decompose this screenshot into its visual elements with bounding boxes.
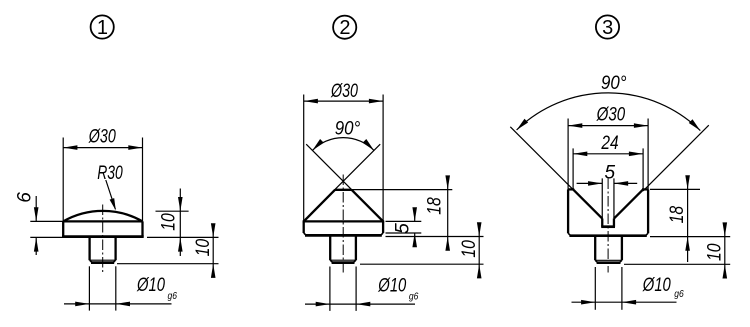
svg-text:10: 10 — [459, 240, 480, 258]
extension line right of Ø10 dim (fig2) — [355, 267, 357, 311]
dome arc R30 (fig1) — [63, 211, 142, 222]
centerline (fig1) — [102, 205, 104, 273]
shank bottom extension line right (fig1) — [117, 263, 219, 265]
dim 18 arrow up (fig3) — [685, 237, 690, 251]
slot bottom (fig3) — [601, 225, 615, 228]
dim 10 shank arrow down (fig1) — [211, 223, 216, 237]
arrow left Ø30 (fig2) — [304, 99, 318, 104]
head bottom extension line right (fig3) — [650, 236, 730, 238]
dim 18 arrow down (fig2) — [445, 175, 450, 189]
dim 5 arrow up (fig2) — [412, 233, 417, 247]
angle arc arrow left (fig2) — [312, 139, 323, 150]
dim 18 line (fig3) — [687, 176, 689, 263]
svg-text:Ø10: Ø10 — [642, 275, 671, 296]
shank chamfer line (fig3) — [595, 259, 622, 261]
extension line right of Ø30 dim (fig2) — [382, 95, 384, 222]
dim 10 head line (fig1) — [179, 189, 181, 257]
dim 10 arrow down (fig3) — [723, 222, 728, 236]
svg-text:1: 1 — [97, 17, 108, 39]
dimension line Ø30 (fig3) — [568, 125, 648, 127]
angle arc arrow right (fig3) — [689, 119, 701, 130]
head bottom extension line right (fig2) — [386, 236, 484, 238]
V face right (fig3) — [614, 189, 643, 218]
cone right flank (fig2) — [352, 190, 384, 222]
dim 10 line (fig3) — [724, 223, 726, 278]
apex level tick (fig1) — [156, 210, 189, 212]
extension line left of Ø10 dim (fig3) — [594, 267, 596, 310]
slot wall extension lines up (fig3) — [602, 178, 614, 218]
head top right segment (fig3) — [642, 188, 648, 190]
extension line left of Ø10 dim (fig1) — [88, 266, 90, 310]
dimension line 5 left tail (fig3) — [577, 182, 603, 184]
dimension line Ø10 (fig1) — [64, 303, 172, 305]
angle arc arrow left (fig3) — [517, 119, 529, 130]
svg-text:18: 18 — [667, 205, 688, 223]
svg-text:18: 18 — [425, 197, 446, 215]
dim 18 line (fig2) — [447, 177, 449, 251]
shank chamfer corners (fig3) — [595, 260, 622, 262]
leader arrow R30 (fig1) — [110, 198, 116, 210]
shank chamfer corners (fig1) — [90, 260, 116, 262]
dim 6 bottom tick (fig1) — [30, 236, 63, 238]
svg-text:Ø10: Ø10 — [136, 275, 165, 296]
svg-text:3: 3 — [602, 17, 613, 39]
construction line V-left extended (fig3) — [510, 127, 573, 190]
dimension line Ø30 (fig1) — [63, 147, 142, 149]
extension line left of Ø30 dim (fig3) — [567, 119, 569, 190]
leader line R30 (fig1) — [106, 180, 116, 209]
dim 10 shank arrow up (fig1) — [211, 264, 216, 278]
svg-text:g6: g6 — [168, 290, 178, 302]
dim 10 shank line (fig1) — [212, 225, 214, 277]
arrow left-pointing at right ext (fig1) — [116, 302, 130, 307]
shank outline (fig3) — [595, 236, 622, 261]
svg-text:24: 24 — [601, 133, 619, 154]
extension line left of 24 dim (fig3) — [572, 148, 574, 189]
angle arc arrow right (fig2) — [363, 139, 374, 150]
shank bottom edge (fig2) — [332, 261, 355, 264]
shank chamfer line (fig2) — [330, 259, 356, 261]
dim 18 arrow down (fig3) — [685, 175, 690, 189]
svg-text:2: 2 — [339, 17, 350, 39]
head top extension line right (fig3) — [650, 188, 700, 190]
cone apex extension line right (fig2) — [352, 189, 453, 191]
angle arc 90deg (fig2) — [312, 138, 374, 151]
arrow right-pointing at left ext (fig2) — [316, 302, 330, 307]
svg-text:Ø30: Ø30 — [88, 127, 116, 148]
arrow right Ø30 (fig2) — [369, 99, 383, 104]
dim 10 arrow up (fig2) — [477, 264, 482, 278]
dim 10 head arrow down (fig1) — [178, 197, 183, 211]
head bottom edge (fig3) — [569, 234, 646, 237]
dim 6 arrow down (fig1) — [34, 207, 39, 221]
arrow right Ø30 (fig3) — [634, 123, 648, 128]
dim 5 line below (fig2) — [414, 233, 416, 247]
arrow left-pointing at right ext (fig2) — [356, 302, 370, 307]
arrow right-pointing at left ext (fig1) — [75, 302, 89, 307]
dimension line Ø10 (fig3) — [572, 301, 677, 303]
base top edge (fig2) — [303, 220, 385, 222]
item balloon 1 — [91, 15, 114, 39]
svg-text:10: 10 — [705, 243, 726, 261]
base bottom chamfer corners (fig2) — [304, 233, 383, 235]
angle arc 90deg (fig3) — [517, 93, 701, 131]
cone flat top (fig2) — [335, 189, 352, 191]
shank bottom edge (fig3) — [597, 261, 621, 264]
construction line V-right extended (fig3) — [643, 125, 709, 191]
svg-text:90°: 90° — [601, 73, 627, 94]
svg-text:g6: g6 — [674, 288, 684, 300]
slot walls (fig3) — [602, 219, 614, 227]
arrow left-pointing at right ext (fig3) — [622, 300, 636, 305]
arrow right 24 (fig3) — [629, 152, 643, 157]
shank outline (fig2) — [330, 235, 356, 260]
construction line right-top to left-flank (fig2) — [311, 144, 381, 214]
shank bottom edge (fig1) — [91, 261, 114, 264]
base bottom edge (fig2) — [305, 234, 382, 237]
item balloon 3 — [596, 15, 619, 39]
shank chamfer corners (fig2) — [330, 260, 356, 262]
dimension line Ø30 (fig2) — [304, 100, 383, 102]
shank outline (fig1) — [90, 237, 116, 261]
arrow left Ø30 (fig3) — [568, 123, 582, 128]
arrow right Ø30 (fig1) — [128, 145, 142, 150]
svg-text:R30: R30 — [97, 163, 123, 184]
arrow left-pointing at slot right wall (fig3) — [614, 181, 628, 186]
V face left (fig3) — [573, 189, 602, 218]
svg-text:6: 6 — [15, 192, 36, 203]
dimension line 5 right tail (fig3) — [614, 182, 637, 184]
extension line left of Ø30 dim (fig2) — [303, 95, 305, 222]
svg-text:10: 10 — [193, 238, 214, 256]
centerline (fig2) — [342, 175, 344, 273]
dim 18 arrow up (fig2) — [445, 237, 450, 251]
head sides (fig3) — [568, 189, 648, 233]
arrow right-pointing at left ext (fig3) — [581, 300, 595, 305]
extension line right of Ø10 dim (fig1) — [115, 266, 117, 310]
shank bottom extension line right (fig3) — [624, 263, 730, 265]
head bottom chamfer corners (fig3) — [568, 233, 648, 236]
dimension line 24 (fig3) — [573, 153, 643, 155]
item balloon 2 — [333, 16, 356, 39]
dim 5 top tick (fig2) — [386, 220, 422, 222]
shank bottom extension line right (fig2) — [360, 263, 484, 265]
svg-text:5: 5 — [392, 223, 413, 234]
shank chamfer line (fig1) — [90, 259, 116, 261]
dim 6 line below (fig1) — [35, 237, 37, 255]
svg-text:Ø30: Ø30 — [330, 81, 358, 102]
head outline (fig1) — [63, 221, 142, 236]
dim 5 arrow down (fig2) — [412, 207, 417, 221]
cone left flank (fig2) — [304, 190, 335, 222]
arrow left 24 (fig3) — [573, 152, 587, 157]
dim 5 line above (fig2) — [414, 208, 416, 222]
head bottom edge (fig1) — [62, 235, 144, 238]
extension line right of Ø30 dim (fig3) — [647, 119, 649, 190]
dim 6 top tick (fig1) — [30, 220, 63, 222]
dim 10 arrow down (fig2) — [477, 222, 482, 236]
dim 10 arrow up (fig3) — [723, 264, 728, 278]
dim 6 arrow up (fig1) — [34, 237, 39, 251]
base sides (fig2) — [304, 221, 383, 233]
head bottom extension line right (fig1) — [147, 236, 219, 238]
svg-text:g6: g6 — [409, 291, 419, 303]
dim 6 line above (fig1) — [35, 196, 37, 221]
arrow left Ø30 (fig1) — [63, 145, 77, 150]
centerline (fig3) — [607, 179, 609, 273]
extension line right of Ø30 dim (fig1) — [142, 138, 144, 222]
svg-text:90°: 90° — [335, 119, 361, 140]
head top left segment (fig3) — [568, 188, 574, 190]
dim 10 line (fig2) — [478, 223, 480, 279]
svg-text:Ø30: Ø30 — [596, 104, 626, 125]
extension line left of Ø10 dim (fig2) — [329, 267, 331, 311]
extension line right of 24 dim (fig3) — [642, 148, 644, 189]
construction line left-top to right-flank (fig2) — [306, 144, 376, 214]
extension line right of Ø10 dim (fig3) — [621, 267, 623, 310]
svg-text:10: 10 — [158, 213, 179, 231]
extension line left of Ø30 dim (fig1) — [62, 138, 64, 222]
dim 5 bottom tick (fig2) — [386, 232, 422, 234]
dimension line Ø10 (fig2) — [305, 303, 415, 305]
dim 10 head arrow up (fig1) — [178, 237, 183, 251]
svg-text:Ø10: Ø10 — [378, 276, 407, 297]
arrow right-pointing at slot left wall (fig3) — [588, 181, 602, 186]
